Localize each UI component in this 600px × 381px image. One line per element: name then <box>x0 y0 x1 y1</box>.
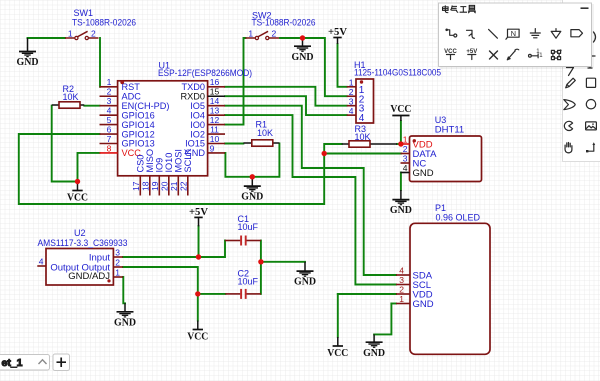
U1 pin 22 SCLK <box>187 176 189 196</box>
panel icon ground <box>530 29 540 38</box>
toolbar icon pencil <box>566 78 576 88</box>
wire VCC to P1 VDD <box>338 293 396 295</box>
U1 pin 13 IO4 <box>208 114 225 116</box>
wire +5V flag down to Input net <box>198 226 200 257</box>
U1 pin 20 IO10 <box>168 176 170 196</box>
junction GND net <box>250 174 255 179</box>
toolbar icon circle <box>586 100 595 109</box>
wire R2 left to VCC and U1 VCC pin <box>52 106 100 182</box>
ground below R1 <box>244 177 261 191</box>
panel icon group <box>551 49 561 59</box>
switch SW2 TS-1088R-02026 <box>246 31 280 39</box>
wire U1 IO15 to R1 <box>225 143 243 145</box>
U1 pin 11 IO2 <box>208 133 225 135</box>
wire SW2 pin2 to H1 pin2 (GND net) <box>280 38 347 96</box>
junction SW2-GND <box>300 35 305 40</box>
toolbar partial icon flag <box>588 56 595 68</box>
add sheet button <box>53 354 70 371</box>
U1 pin 10 IO15 <box>208 143 225 145</box>
U1 pin 3 EN(CH-PD) <box>100 105 118 107</box>
toolbar partial icon seven <box>567 68 574 76</box>
wire P1 GND pin <box>391 303 396 305</box>
P1 pin 4 SDA <box>396 274 410 276</box>
right toolbar <box>563 0 600 162</box>
panel icon wire <box>445 29 456 38</box>
wire Output net to C2 left <box>198 293 226 295</box>
panel icon net label <box>506 29 519 39</box>
U1 pin 17 CS0 <box>139 176 141 196</box>
panel icon pin <box>529 49 544 59</box>
toolbar icon image <box>586 122 597 130</box>
ground below P1 <box>366 334 383 347</box>
U2 pin 1 <box>113 276 123 278</box>
U1 pin 12 IO0 <box>208 124 225 126</box>
sheet tab <box>0 355 50 371</box>
wire U1 GPIO12 to R3 (DATA net) <box>19 134 342 204</box>
+5V flag top <box>333 38 341 45</box>
panel icon VCC <box>444 49 457 60</box>
U1 pin-1 marker <box>120 80 124 84</box>
wire U1 IO5 to P1 SDA <box>225 106 396 275</box>
toolbar icon arrow shape <box>564 100 575 110</box>
U1 pin 9 GND <box>208 152 225 154</box>
U1 pin 4 GPIO16 <box>100 114 118 116</box>
U2 pin 4 <box>37 265 46 267</box>
wire SW1 pin2 to U1 RST <box>99 38 101 87</box>
ground below U2 <box>117 303 134 317</box>
wire C1 right to C2 right <box>260 241 262 294</box>
wire R2 to U1 EN <box>84 105 99 107</box>
display P1 0.96 OLED <box>396 223 490 354</box>
H1 pin 4 <box>347 114 356 116</box>
U1 pin 14 IO5 <box>208 105 225 107</box>
wire VCC to U3 VDD <box>400 121 402 144</box>
junction Output-C2 <box>195 291 200 296</box>
wire U1 TXD0 to H1 pin3 <box>225 87 347 106</box>
wire U1 IO0 to SW2 pin1 <box>225 38 246 125</box>
wire +5V Input to C1 left <box>123 241 225 258</box>
wire U3 GND pin to ground <box>400 173 402 191</box>
ground near C1 C2 <box>297 262 314 276</box>
ground below U3 <box>392 190 409 205</box>
connector H1 1125-1104G0S118C005 <box>347 77 374 124</box>
capacitor C1 <box>225 236 261 246</box>
wire P1 VDD down to VCC flag <box>337 294 339 337</box>
U3 pin 4 GND <box>401 172 410 174</box>
wire +5V to H1 pin1 <box>338 44 347 87</box>
sensor U3 DHT11 <box>401 135 482 182</box>
resistor R2 <box>52 102 85 108</box>
panel minimize button <box>581 7 589 9</box>
H1 pin 1 <box>347 86 356 88</box>
U1 pin 18 MISO <box>149 176 151 196</box>
panel icon probe <box>507 49 519 60</box>
U1 pin 7 GPIO13 <box>100 143 118 145</box>
U1 pin 2 ADC <box>100 95 118 97</box>
wire DATA to U3 DATA pin <box>324 153 401 155</box>
electrical tools panel <box>439 3 595 69</box>
junction C1-C2 gnd <box>258 259 263 264</box>
junction DATA-R3 <box>322 151 327 156</box>
H1 pin 2 <box>347 95 356 97</box>
ground near SW1 <box>19 38 36 57</box>
U1 pin 16 TXD0 <box>208 86 225 88</box>
U1 pin 21 MOSI <box>177 176 179 196</box>
wire U1 IO4 to P1 SCL <box>225 115 396 284</box>
wire U1 RXD0 to H1 pin4 <box>225 96 347 115</box>
panel icon no-connect <box>490 51 498 59</box>
toolbar partial icon wave <box>594 32 596 42</box>
P1 pin 1 GND <box>396 303 410 305</box>
U2 pin 3 <box>113 256 123 258</box>
U1 pin 15 RXD0 <box>208 95 225 97</box>
U3 pin-1 marker <box>413 139 416 142</box>
panel icon +5V <box>466 49 477 60</box>
VCC flag below U2 <box>193 321 203 330</box>
wire U2 GND-ADJ to ground <box>123 277 125 303</box>
wire SW1 pin1 to GND <box>28 37 66 39</box>
wire R3 right to U3 VDD <box>397 143 401 145</box>
junction +5V Input <box>196 254 201 259</box>
switch SW1 TS-1088R-02026 <box>65 31 99 39</box>
junction VCC-R2 <box>75 179 80 184</box>
resistor R3 <box>342 141 397 147</box>
capacitor C2 <box>225 289 261 299</box>
wire cap gnd branch <box>261 261 305 263</box>
+5V flag above U2 <box>194 217 202 226</box>
U3 pin 3 NC <box>401 162 410 164</box>
H1 pin 3 <box>347 105 356 107</box>
toolbar icon polyline <box>586 142 595 152</box>
regulator U2 AMS1117-3.3 <box>37 248 123 285</box>
junction VCC-U3 VDD <box>398 141 403 146</box>
VCC flag below P1 <box>333 337 343 346</box>
toolbar icon hand <box>565 143 572 153</box>
toolbar icon rectangle <box>586 78 595 87</box>
ground near SW2 <box>294 38 311 51</box>
U3 pin 2 DATA <box>401 153 410 155</box>
U1 pin 6 GPIO12 <box>100 133 118 135</box>
U1 pin 5 GPIO14 <box>100 124 118 126</box>
VCC flag above U3 <box>392 116 409 122</box>
U3 pin 1 VDD <box>401 143 410 145</box>
svg-text:et_1: et_1 <box>2 357 23 369</box>
U2 pin-1 marker <box>107 279 110 282</box>
wire P1 GND to ground <box>374 304 391 335</box>
U1 pin 1 RST <box>100 86 118 88</box>
panel icon bus <box>467 30 475 38</box>
U1 pin 8 VCC <box>100 152 118 154</box>
wire R1 right to GND and U1 GND pin <box>225 144 279 177</box>
P1 pin 3 SCL <box>396 284 410 286</box>
toolbar icon arc <box>564 121 572 130</box>
P1 pin 2 VDD <box>396 293 410 295</box>
panel icon port <box>571 30 583 37</box>
resistor R1 <box>243 140 279 146</box>
H1 pin-1 marker <box>360 80 363 83</box>
svg-text:N: N <box>511 29 516 38</box>
IC U1 ESP-12F(ESP8266MOD) <box>100 77 226 195</box>
U2 pin 2 <box>113 266 123 268</box>
U1 pin 19 IO9 <box>158 176 160 196</box>
panel icon line <box>489 29 498 38</box>
VCC flag below R2 <box>72 182 82 191</box>
panel icon earth ground <box>551 29 561 39</box>
wire U2 Output down to VCC flag <box>123 267 198 321</box>
